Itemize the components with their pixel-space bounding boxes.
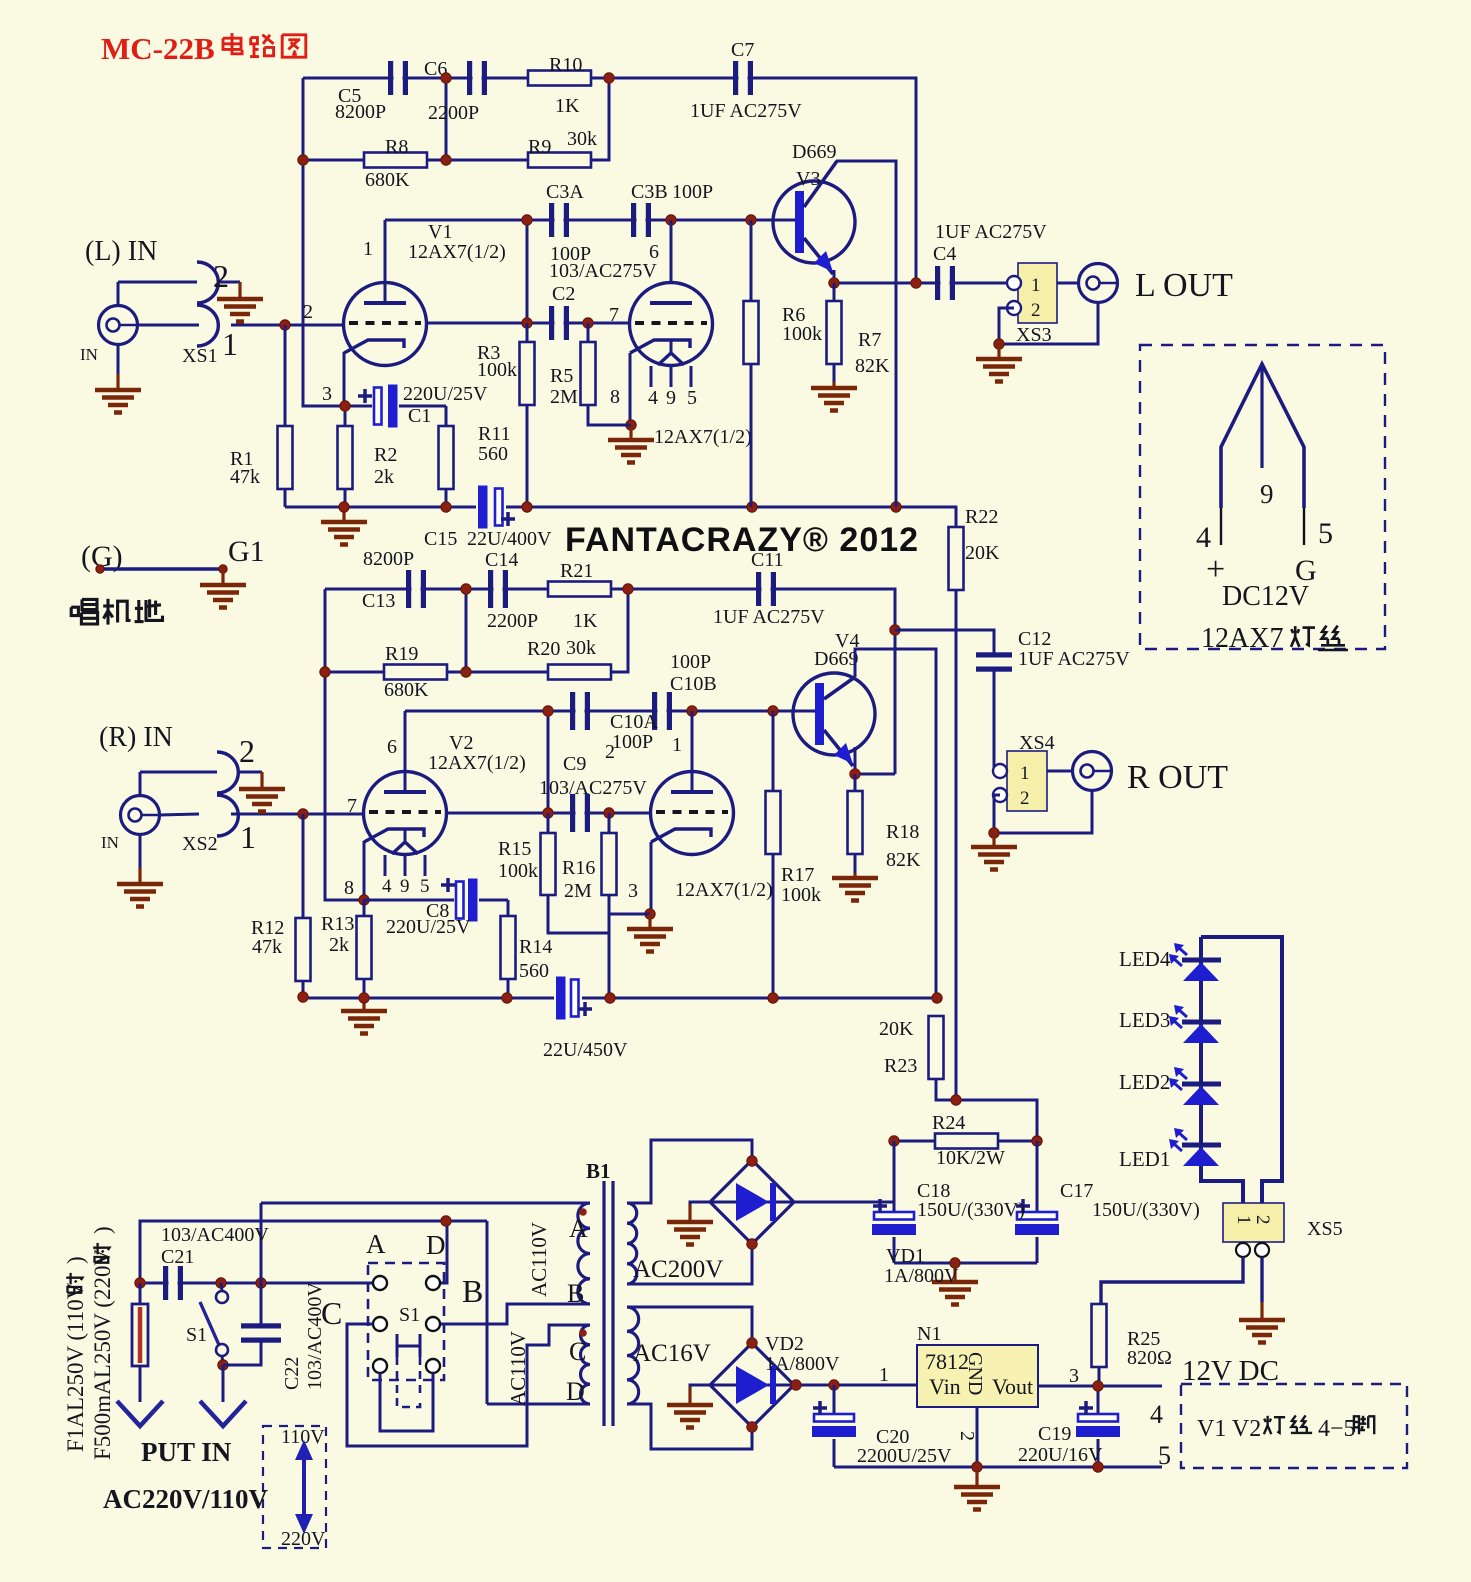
svg-text:): ) xyxy=(90,1226,115,1234)
svg-text:DC12V: DC12V xyxy=(1222,581,1309,612)
svg-text:5: 5 xyxy=(687,387,697,409)
svg-text:D669: D669 xyxy=(792,141,836,163)
svg-text:1A/800V: 1A/800V xyxy=(765,1353,840,1375)
svg-text:C: C xyxy=(321,1295,342,1331)
svg-text:C3B: C3B xyxy=(631,181,668,203)
svg-text:150U/(330V): 150U/(330V) xyxy=(1092,1199,1200,1221)
svg-text:D: D xyxy=(566,1377,585,1406)
svg-text:2: 2 xyxy=(1020,788,1030,809)
svg-text:XS5: XS5 xyxy=(1307,1218,1343,1240)
svg-text:R7: R7 xyxy=(858,329,881,351)
svg-text:L OUT: L OUT xyxy=(1135,267,1233,304)
svg-text:100P: 100P xyxy=(670,651,711,673)
svg-text:3: 3 xyxy=(1069,1365,1079,1387)
svg-text:LED4: LED4 xyxy=(1119,947,1171,971)
svg-text:R21: R21 xyxy=(560,560,593,582)
svg-text:1UF AC275V: 1UF AC275V xyxy=(1018,648,1130,670)
svg-text:C19: C19 xyxy=(1038,1423,1071,1445)
svg-text:R5: R5 xyxy=(550,365,573,387)
svg-text:R16: R16 xyxy=(562,857,595,879)
svg-text:V2: V2 xyxy=(449,732,473,754)
svg-text:2: 2 xyxy=(1031,300,1041,321)
svg-text:R15: R15 xyxy=(498,838,531,860)
svg-text:12AX7: 12AX7 xyxy=(1201,623,1283,654)
svg-text:C17: C17 xyxy=(1060,1180,1093,1202)
svg-text:100P: 100P xyxy=(672,181,713,203)
svg-text:1UF AC275V: 1UF AC275V xyxy=(713,606,825,628)
svg-text:C10A: C10A xyxy=(610,711,658,733)
svg-text:30k: 30k xyxy=(566,637,596,659)
svg-text:7: 7 xyxy=(609,304,619,326)
svg-text:1K: 1K xyxy=(573,610,598,632)
svg-text:C1: C1 xyxy=(408,405,431,427)
svg-text:R17: R17 xyxy=(781,864,814,886)
svg-text:4: 4 xyxy=(1150,1400,1163,1429)
svg-text:2M: 2M xyxy=(550,386,578,408)
svg-text:220U/25V: 220U/25V xyxy=(386,916,471,938)
svg-text:R14: R14 xyxy=(519,936,552,958)
svg-text:XS4: XS4 xyxy=(1019,732,1055,754)
svg-text:30k: 30k xyxy=(567,128,597,150)
svg-text:C4: C4 xyxy=(933,243,956,265)
svg-text:R2: R2 xyxy=(374,444,397,466)
svg-text:C12: C12 xyxy=(1018,628,1051,650)
svg-text:LED1: LED1 xyxy=(1119,1147,1170,1171)
svg-text:8: 8 xyxy=(610,386,620,408)
svg-text:V1: V1 xyxy=(428,221,452,243)
svg-text:LED3: LED3 xyxy=(1119,1008,1170,1032)
svg-text:1: 1 xyxy=(222,326,238,362)
svg-text:20K: 20K xyxy=(879,1018,914,1040)
svg-text:C: C xyxy=(569,1337,586,1366)
svg-text:1K: 1K xyxy=(555,95,580,117)
svg-text:VD1: VD1 xyxy=(886,1245,925,1267)
svg-text:B: B xyxy=(462,1273,483,1309)
svg-text:D: D xyxy=(426,1230,446,1260)
svg-text:5: 5 xyxy=(1318,517,1333,550)
svg-text:7812: 7812 xyxy=(925,1349,969,1374)
svg-text:4: 4 xyxy=(382,876,392,897)
svg-text:12AX7(1/2): 12AX7(1/2) xyxy=(408,241,506,263)
svg-text:LED2: LED2 xyxy=(1119,1070,1170,1094)
svg-text:R9: R9 xyxy=(528,136,551,158)
svg-text:4−5: 4−5 xyxy=(1318,1416,1356,1442)
svg-text:C7: C7 xyxy=(731,39,754,61)
svg-text:560: 560 xyxy=(478,443,508,465)
svg-text:100P: 100P xyxy=(612,731,653,753)
svg-text:82K: 82K xyxy=(855,355,890,377)
svg-text:GND: GND xyxy=(964,1352,986,1395)
svg-text:103/AC275V: 103/AC275V xyxy=(549,260,657,282)
svg-text:100k: 100k xyxy=(781,884,821,906)
svg-text:B1: B1 xyxy=(586,1159,611,1183)
svg-text:XS2: XS2 xyxy=(182,833,218,855)
svg-text:R20: R20 xyxy=(527,638,560,660)
svg-text:1: 1 xyxy=(1020,763,1030,784)
svg-text:5: 5 xyxy=(1158,1441,1171,1470)
svg-text:R OUT: R OUT xyxy=(1127,759,1228,796)
svg-text:1: 1 xyxy=(363,238,373,260)
svg-text:Vin: Vin xyxy=(929,1374,961,1399)
svg-text:1: 1 xyxy=(1031,275,1041,296)
svg-text:20K: 20K xyxy=(965,542,1000,564)
svg-text:V1 V2: V1 V2 xyxy=(1197,1416,1261,1442)
svg-text:XS1: XS1 xyxy=(182,345,218,367)
svg-text:C10B: C10B xyxy=(670,673,717,695)
svg-text:12AX7(1/2): 12AX7(1/2) xyxy=(675,879,773,901)
svg-text:680K: 680K xyxy=(384,679,429,701)
svg-text:D669: D669 xyxy=(814,648,858,670)
svg-text:1: 1 xyxy=(240,819,256,855)
svg-text:IN: IN xyxy=(101,833,119,852)
svg-text:8200P: 8200P xyxy=(335,101,386,123)
svg-text:AC110V: AC110V xyxy=(527,1222,551,1297)
svg-text:2: 2 xyxy=(956,1431,978,1441)
svg-text:N1: N1 xyxy=(917,1323,941,1345)
svg-text:22U/400V: 22U/400V xyxy=(467,528,552,550)
svg-text:(L) IN: (L) IN xyxy=(85,236,157,267)
svg-text:2200U/25V: 2200U/25V xyxy=(857,1445,952,1467)
svg-text:R23: R23 xyxy=(884,1055,917,1077)
svg-text:AC200V: AC200V xyxy=(633,1256,723,1283)
svg-text:6: 6 xyxy=(649,241,659,263)
svg-text:47k: 47k xyxy=(230,466,260,488)
svg-text:AC110V: AC110V xyxy=(506,1331,530,1406)
svg-text:IN: IN xyxy=(80,345,98,364)
svg-text:6: 6 xyxy=(387,736,397,758)
svg-text:4: 4 xyxy=(648,387,658,409)
svg-text:PUT IN: PUT IN xyxy=(141,1437,232,1467)
svg-text:5: 5 xyxy=(420,876,430,897)
svg-text:C22: C22 xyxy=(281,1357,303,1390)
svg-text:103/AC275V: 103/AC275V xyxy=(539,777,647,799)
svg-text:VD2: VD2 xyxy=(765,1333,804,1355)
svg-text:B: B xyxy=(567,1279,584,1308)
svg-text:R8: R8 xyxy=(385,136,408,158)
svg-text:2: 2 xyxy=(213,258,229,294)
svg-text:82K: 82K xyxy=(886,849,921,871)
svg-text:2: 2 xyxy=(605,741,615,763)
svg-text:R24: R24 xyxy=(932,1112,965,1134)
svg-text:47k: 47k xyxy=(252,936,282,958)
svg-text:1: 1 xyxy=(879,1364,889,1386)
svg-text:560: 560 xyxy=(519,960,549,982)
svg-text:R22: R22 xyxy=(965,506,998,528)
svg-text:2: 2 xyxy=(303,301,313,323)
svg-text:103/AC400V: 103/AC400V xyxy=(161,1224,269,1246)
svg-text:12AX7(1/2): 12AX7(1/2) xyxy=(428,752,526,774)
svg-text:2k: 2k xyxy=(329,934,349,956)
svg-text:AC16V: AC16V xyxy=(633,1340,711,1367)
svg-text:F1AL250V (110V: F1AL250V (110V xyxy=(63,1282,88,1452)
svg-text:12AX7(1/2): 12AX7(1/2) xyxy=(654,426,752,448)
svg-text:V3: V3 xyxy=(796,168,820,190)
svg-text:2M: 2M xyxy=(564,880,592,902)
svg-text:S1: S1 xyxy=(186,1324,207,1346)
svg-text:C13: C13 xyxy=(362,590,395,612)
svg-text:220U/25V: 220U/25V xyxy=(403,383,488,405)
svg-text:C11: C11 xyxy=(751,549,784,571)
svg-text:220U/16V: 220U/16V xyxy=(1018,1444,1103,1466)
svg-text:10K/2W: 10K/2W xyxy=(936,1147,1005,1169)
svg-text:2: 2 xyxy=(1252,1215,1273,1225)
svg-text:R10: R10 xyxy=(549,54,582,76)
svg-text:3: 3 xyxy=(322,383,332,405)
svg-text:Vout: Vout xyxy=(992,1374,1033,1399)
svg-text:12V DC: 12V DC xyxy=(1182,1355,1279,1387)
svg-text:2200P: 2200P xyxy=(487,610,538,632)
svg-text:FANTACRAZY® 2012: FANTACRAZY® 2012 xyxy=(565,521,919,559)
svg-text:C2: C2 xyxy=(552,283,575,305)
svg-text:1UF AC275V: 1UF AC275V xyxy=(690,100,802,122)
svg-text:G1: G1 xyxy=(228,535,265,568)
svg-text:R19: R19 xyxy=(385,643,418,665)
svg-text:2k: 2k xyxy=(374,466,394,488)
svg-text:8: 8 xyxy=(344,877,354,899)
svg-text:2200P: 2200P xyxy=(428,102,479,124)
svg-text:9: 9 xyxy=(400,876,410,897)
svg-text:R18: R18 xyxy=(886,821,919,843)
svg-text:7: 7 xyxy=(347,795,357,817)
svg-text:4: 4 xyxy=(1196,521,1211,554)
svg-text:100k: 100k xyxy=(782,323,822,345)
svg-text:MC-22B: MC-22B xyxy=(101,31,215,66)
svg-text:F500mAL250V (220V: F500mAL250V (220V xyxy=(90,1249,115,1460)
svg-text:820Ω: 820Ω xyxy=(1127,1347,1172,1369)
svg-text:R13: R13 xyxy=(321,913,354,935)
svg-text:150U/(330V): 150U/(330V) xyxy=(917,1199,1025,1221)
svg-text:100k: 100k xyxy=(498,860,538,882)
svg-text:): ) xyxy=(63,1256,88,1264)
svg-text:680K: 680K xyxy=(365,169,410,191)
svg-text:9: 9 xyxy=(666,387,676,409)
svg-text:1: 1 xyxy=(1233,1215,1254,1225)
svg-text:3: 3 xyxy=(628,880,638,902)
svg-text:1: 1 xyxy=(672,734,682,756)
svg-text:C9: C9 xyxy=(563,753,586,775)
svg-text:22U/450V: 22U/450V xyxy=(543,1039,628,1061)
svg-text:A: A xyxy=(366,1229,386,1259)
svg-text:2: 2 xyxy=(239,733,255,769)
svg-text:S1: S1 xyxy=(399,1304,420,1326)
svg-text:100k: 100k xyxy=(477,359,517,381)
svg-text:(R) IN: (R) IN xyxy=(99,722,173,753)
svg-text:C15: C15 xyxy=(424,528,457,550)
svg-text:1A/800V: 1A/800V xyxy=(884,1265,959,1287)
svg-text:C21: C21 xyxy=(161,1246,194,1268)
svg-text:C14: C14 xyxy=(485,549,518,571)
svg-text:1UF AC275V: 1UF AC275V xyxy=(935,221,1047,243)
svg-text:AC220V/110V: AC220V/110V xyxy=(103,1484,269,1514)
svg-text:9: 9 xyxy=(1260,479,1274,509)
svg-text:8200P: 8200P xyxy=(363,548,414,570)
svg-text:R11: R11 xyxy=(478,423,511,445)
svg-text:A: A xyxy=(569,1214,588,1243)
svg-text:C3A: C3A xyxy=(546,181,584,203)
